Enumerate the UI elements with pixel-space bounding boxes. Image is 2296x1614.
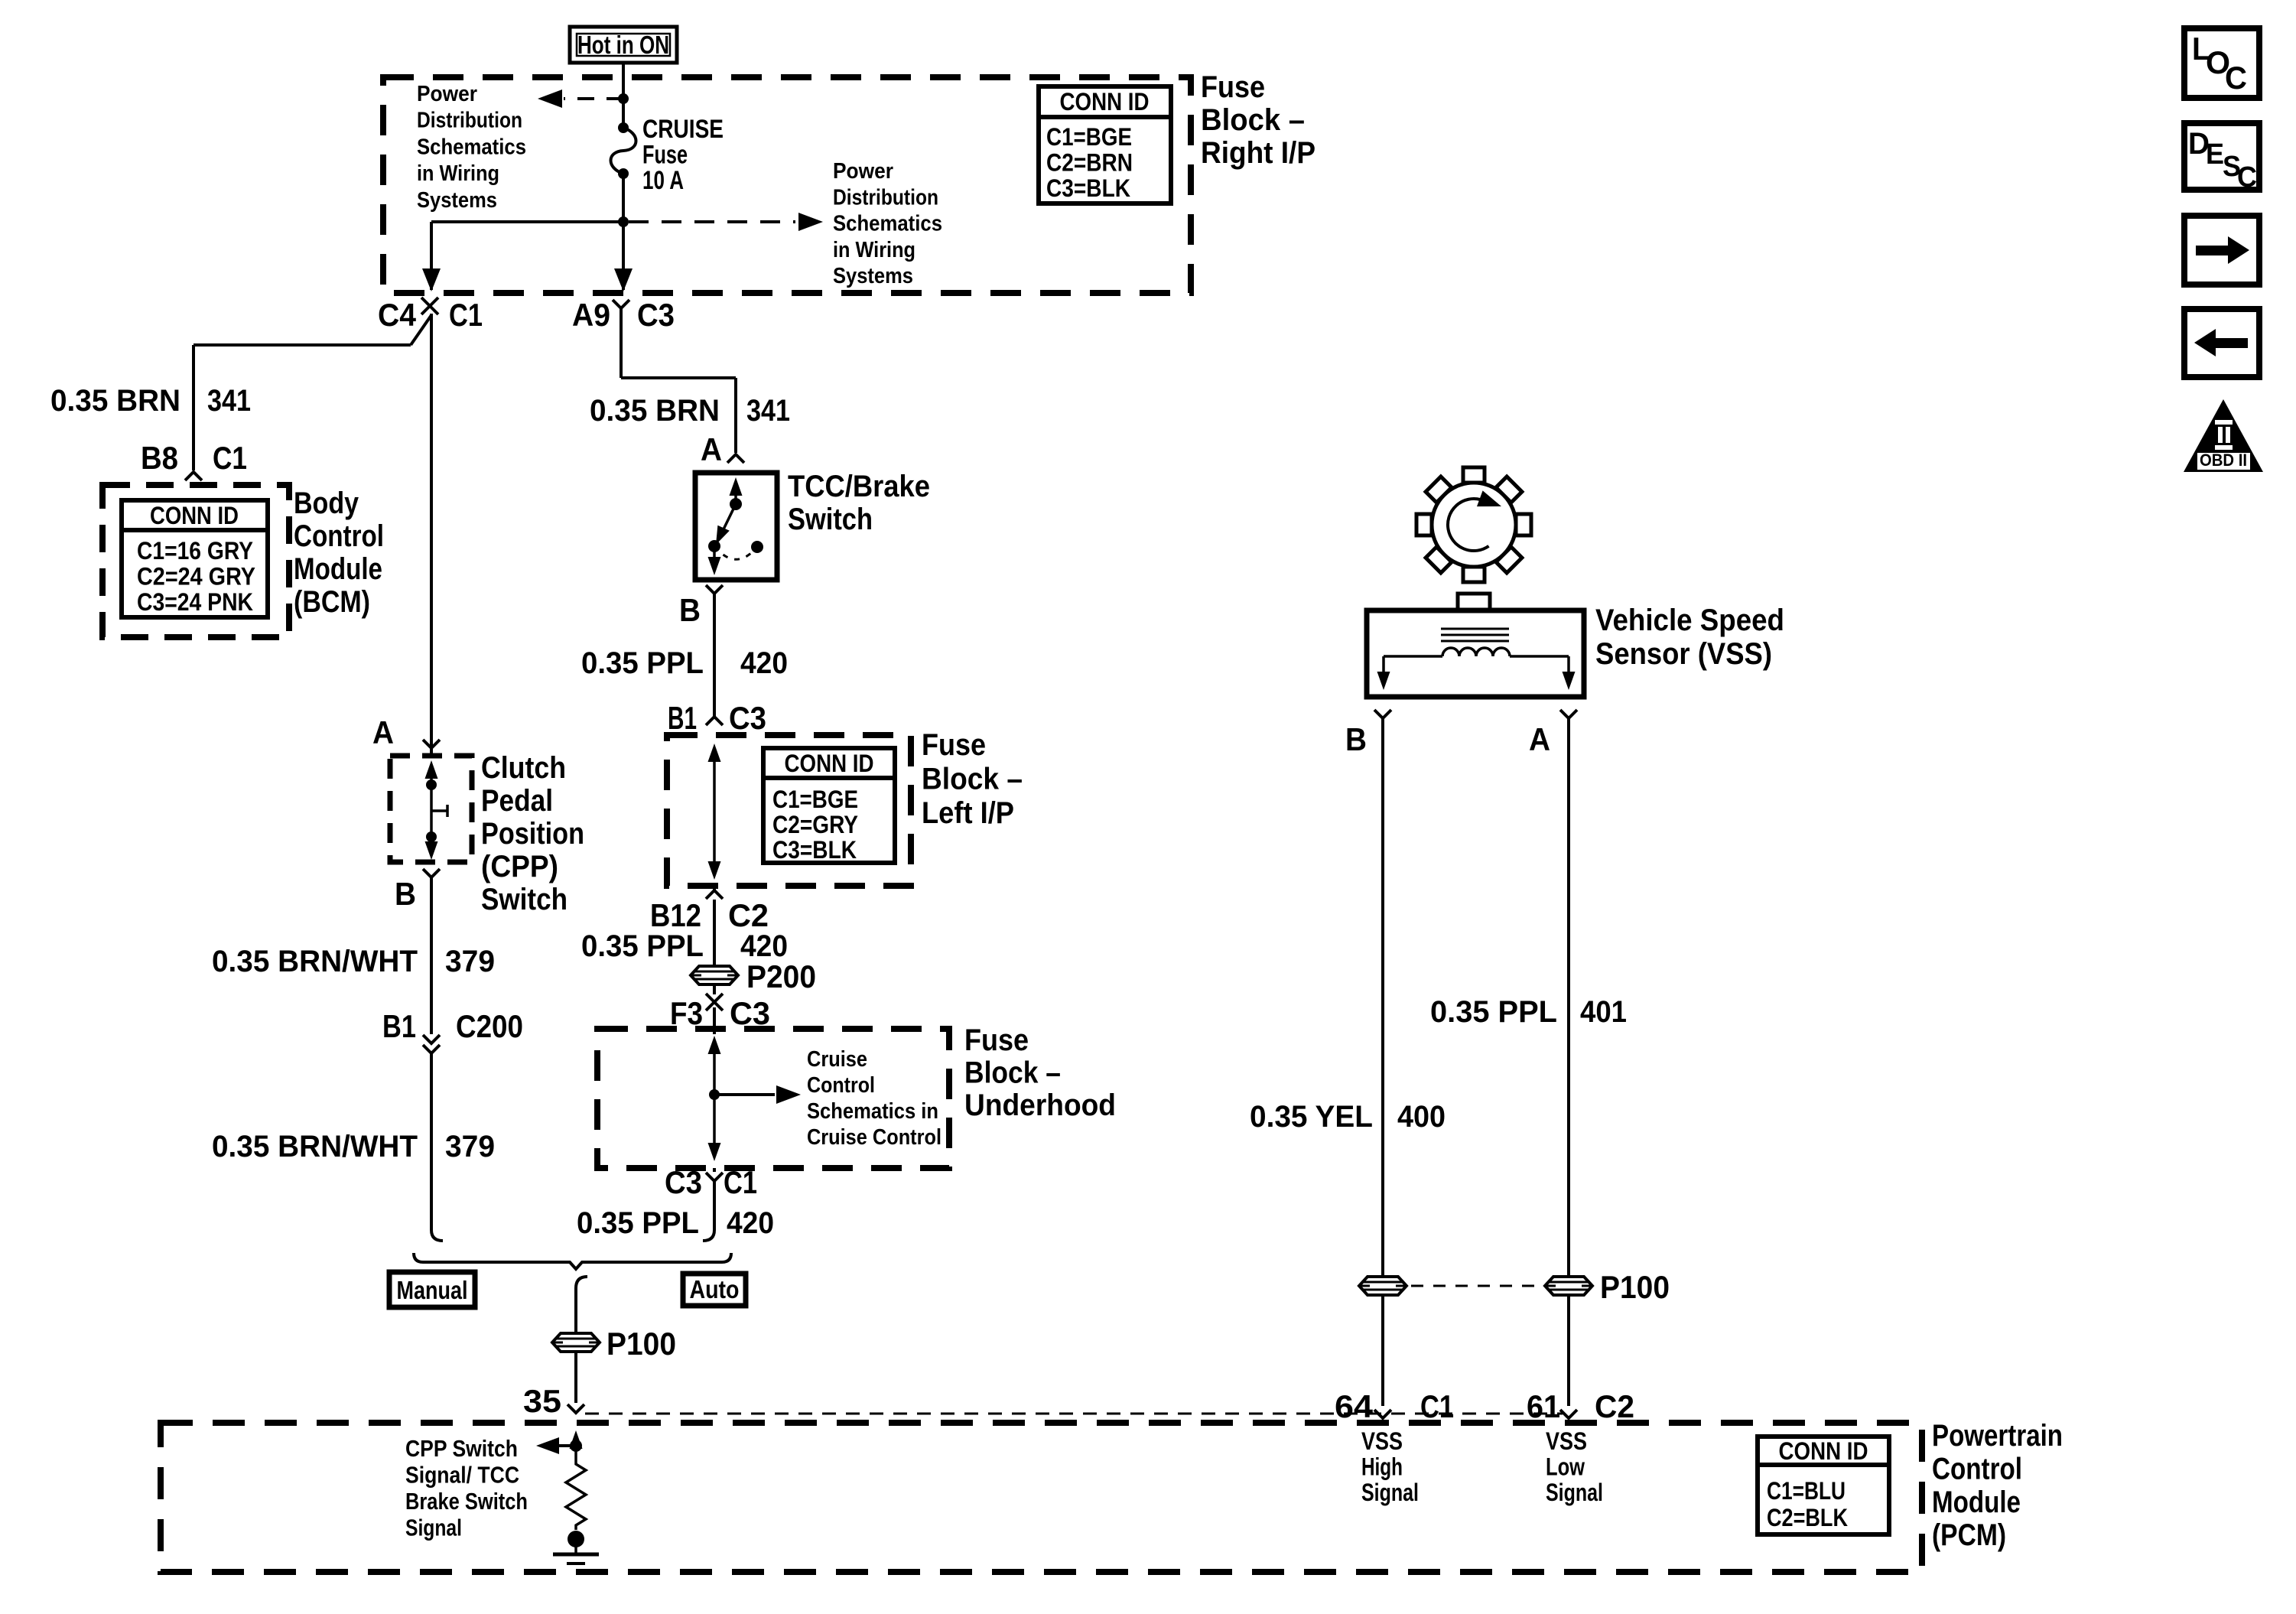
svg-text:Body: Body [294, 486, 359, 520]
svg-text:35: 35 [523, 1383, 561, 1419]
arrow into A9 pin [614, 268, 633, 291]
fuse block underhood dashed box [597, 1029, 949, 1168]
svg-text:A: A [372, 714, 394, 750]
connector symbol 61/C2 [1560, 1410, 1577, 1418]
svg-text:C1=16 GRY: C1=16 GRY [137, 537, 253, 565]
thin dashed boundary line at PCM top [585, 1413, 1563, 1415]
svg-text:C: C [2237, 161, 2257, 194]
svg-text:Fuse: Fuse [922, 728, 986, 762]
wire: Hot in ON down to junction [622, 64, 625, 128]
svg-text:C3: C3 [730, 995, 770, 1031]
svg-text:0.35 PPL: 0.35 PPL [581, 929, 704, 963]
svg-text:C1=BGE: C1=BGE [772, 786, 858, 813]
dashed arrow left to Power Distribution Schematics [564, 97, 623, 100]
svg-text:in Wiring: in Wiring [417, 161, 499, 186]
PCM internal: resistor zigzag [566, 1446, 586, 1530]
svg-text:Control: Control [294, 519, 384, 553]
svg-text:C2=GRY: C2=GRY [772, 811, 858, 838]
right arrow icon box [2184, 216, 2259, 285]
svg-text:High: High [1361, 1453, 1403, 1481]
svg-text:Auto: Auto [690, 1275, 740, 1303]
inline connector P100 (center) [552, 1333, 600, 1352]
svg-text:C3=24 PNK: C3=24 PNK [137, 588, 253, 616]
svg-text:64: 64 [1335, 1388, 1374, 1424]
svg-text:C2=BRN: C2=BRN [1046, 149, 1133, 177]
svg-text:Fuse: Fuse [642, 141, 688, 170]
wire: P100 to PCM 61 [1567, 1296, 1570, 1406]
svg-text:P100: P100 [1600, 1269, 1670, 1305]
svg-text:C4: C4 [378, 297, 417, 333]
junction dot under Hot in ON [618, 93, 629, 104]
PCM internal: ground dot and ground symbol [567, 1531, 584, 1547]
svg-text:C200: C200 [456, 1008, 523, 1044]
svg-text:E: E [2206, 138, 2224, 171]
underhood: internal wire with arrows and branch [713, 1042, 716, 1154]
svg-text:VSS: VSS [1546, 1427, 1587, 1455]
CPP switch dashed box [390, 756, 472, 862]
PCM dashed box [161, 1423, 1922, 1572]
wire: A9 down and right to TCC switch [620, 314, 623, 378]
CONN ID table: PCM [1758, 1437, 1889, 1534]
connector symbol C200 double chevron [423, 1035, 440, 1043]
power label box: Hot in ON [570, 27, 677, 63]
fuse CRUISE 10A: S-curve element [618, 122, 629, 133]
PCM internal: junction dot [570, 1440, 582, 1452]
DESC icon box [2184, 123, 2259, 190]
svg-text:Schematics: Schematics [833, 212, 942, 236]
wire: VSS B down to P100 [1381, 718, 1384, 1276]
connector symbol B1/C3 [706, 717, 723, 725]
TCC/Brake Switch box [695, 473, 777, 580]
connector symbol C4/C1 [421, 298, 438, 314]
svg-text:401: 401 [1580, 995, 1627, 1029]
svg-text:CONN ID: CONN ID [150, 502, 239, 529]
CONN ID table: fuse block left I/P [763, 748, 895, 863]
svg-text:C3=BLK: C3=BLK [1046, 174, 1130, 202]
svg-text:Pedal: Pedal [481, 784, 553, 818]
brace merging manual and auto wires [414, 1253, 731, 1269]
connector symbol 64/C1 [1374, 1410, 1391, 1418]
svg-text:0.35 YEL: 0.35 YEL [1250, 1100, 1373, 1134]
CPP switch: contact bar [430, 785, 433, 837]
VSS gear icon [1416, 467, 1531, 582]
connector symbol B below CPP [423, 869, 440, 877]
svg-text:C1: C1 [724, 1164, 757, 1200]
svg-text:Systems: Systems [833, 264, 913, 288]
LOC icon box [2184, 28, 2259, 98]
wire: C1 down to auto hook [713, 1181, 716, 1224]
fuse block right I/P dashed box [383, 77, 1191, 293]
svg-text:Signal: Signal [1361, 1479, 1419, 1506]
svg-text:Power: Power [417, 82, 477, 106]
connector symbol B8 [185, 472, 202, 480]
wire: P100 to PCM pin 35 [574, 1352, 577, 1403]
svg-text:OBD II: OBD II [2200, 451, 2247, 470]
BCM dashed box [102, 485, 289, 637]
TCC switch: second contact dot [751, 541, 763, 553]
svg-text:C2: C2 [728, 897, 769, 933]
connector symbol A at TCC [727, 454, 744, 463]
svg-text:B1: B1 [668, 700, 697, 736]
svg-text:Systems: Systems [417, 188, 497, 213]
svg-text:P200: P200 [746, 958, 816, 994]
svg-text:341: 341 [746, 394, 790, 428]
svg-text:379: 379 [445, 1130, 495, 1163]
connector symbol B below TCC [706, 585, 723, 594]
svg-text:CPP Switch: CPP Switch [405, 1435, 518, 1462]
svg-text:Block –: Block – [922, 763, 1023, 796]
svg-text:C1: C1 [1420, 1388, 1454, 1424]
svg-text:C3: C3 [665, 1164, 702, 1200]
svg-text:400: 400 [1397, 1100, 1446, 1134]
hook at bottom of manual wire [431, 1224, 443, 1241]
svg-text:0.35 PPL: 0.35 PPL [577, 1206, 699, 1240]
junction dot at power branch [618, 216, 629, 227]
svg-text:0.35 PPL: 0.35 PPL [1430, 995, 1557, 1029]
TCC switch: arm with arrow [721, 504, 736, 534]
svg-text:Schematics in: Schematics in [807, 1099, 938, 1124]
VSS gear rotation arrow [1448, 499, 1488, 551]
PCM internal: left arrow [558, 1444, 576, 1447]
svg-text:0.35 BRN: 0.35 BRN [590, 394, 720, 428]
svg-text:Control: Control [807, 1073, 875, 1098]
svg-text:(CPP): (CPP) [481, 850, 558, 883]
svg-text:C3: C3 [729, 700, 766, 736]
svg-text:0.35 BRN/WHT: 0.35 BRN/WHT [212, 1130, 418, 1163]
svg-text:Control: Control [1932, 1452, 2022, 1485]
svg-text:0.35 BRN: 0.35 BRN [50, 384, 180, 418]
connector symbol A below VSS [1560, 710, 1577, 718]
wire: CPP B down to C200 [430, 877, 433, 1034]
svg-text:Distribution: Distribution [833, 185, 938, 210]
connector symbol C3/C1 [706, 1173, 723, 1181]
svg-text:61: 61 [1527, 1388, 1560, 1424]
TCC switch: down arrow to B [713, 546, 716, 566]
connector symbol A9/C3 [613, 300, 629, 308]
PCM internal: up arrow to pin 35 [574, 1438, 577, 1446]
svg-text:CONN ID: CONN ID [1060, 88, 1150, 116]
wire: P100 to PCM 64 [1381, 1296, 1384, 1406]
svg-text:Sensor (VSS): Sensor (VSS) [1595, 637, 1772, 671]
dashed arrow right to Power Distribution Schematics [629, 220, 795, 223]
fuse block left: internal wire with arrows [713, 751, 716, 872]
svg-text:420: 420 [740, 646, 788, 680]
svg-text:CONN ID: CONN ID [785, 750, 874, 777]
inline connector P100 (VSS low) [1545, 1277, 1592, 1295]
fuse block left I/P dashed box [667, 735, 911, 886]
svg-text:341: 341 [207, 384, 251, 418]
svg-text:Signal: Signal [1546, 1479, 1603, 1506]
svg-text:(BCM): (BCM) [294, 585, 370, 619]
VSS coil [1442, 648, 1510, 656]
svg-text:C2=BLK: C2=BLK [1767, 1504, 1848, 1531]
svg-text:Power: Power [833, 159, 893, 184]
VSS internal wires with arrows [1384, 655, 1442, 658]
CPP switch: up arrow [430, 766, 433, 785]
svg-text:Switch: Switch [481, 883, 567, 916]
svg-text:Distribution: Distribution [417, 109, 522, 133]
wire: P200 to F3 [713, 985, 716, 994]
wire: C200 down to manual hook [430, 1053, 433, 1224]
inline connector P100 (VSS high) [1359, 1277, 1407, 1295]
svg-text:C1=BLU: C1=BLU [1767, 1477, 1846, 1505]
svg-text:Cruise: Cruise [807, 1047, 867, 1072]
svg-text:Right I/P: Right I/P [1201, 136, 1315, 170]
svg-text:379: 379 [445, 945, 495, 978]
Manual tag box [389, 1272, 475, 1307]
svg-text:Fuse: Fuse [1201, 70, 1265, 104]
svg-text:Fuse: Fuse [964, 1023, 1029, 1057]
svg-text:0.35 BRN/WHT: 0.35 BRN/WHT [212, 945, 418, 978]
svg-text:CONN ID: CONN ID [1779, 1437, 1868, 1465]
svg-text:Signal: Signal [405, 1515, 462, 1541]
inline connector P200 [691, 966, 738, 984]
TCC switch: up arrow contact [734, 483, 737, 504]
connector symbol B below VSS [1374, 710, 1391, 718]
svg-text:Schematics: Schematics [417, 135, 526, 159]
wire: TCC B down to B1/C3 [713, 594, 716, 717]
CPP switch: down arrow [430, 837, 433, 851]
svg-text:C1: C1 [449, 297, 483, 333]
svg-text:B: B [679, 592, 701, 628]
svg-text:Block –: Block – [1201, 103, 1305, 137]
svg-text:Position: Position [481, 817, 584, 851]
svg-text:A9: A9 [572, 297, 610, 333]
svg-text:Clutch: Clutch [481, 751, 566, 785]
svg-text:Hot in ON: Hot in ON [577, 31, 669, 59]
svg-text:F3: F3 [670, 995, 703, 1031]
svg-text:Module: Module [294, 552, 382, 586]
svg-text:Cruise Control: Cruise Control [807, 1125, 941, 1150]
left arrow icon box [2184, 309, 2259, 377]
connector symbol pin 35 [567, 1404, 584, 1413]
svg-text:(PCM): (PCM) [1932, 1518, 2006, 1552]
svg-text:Block –: Block – [964, 1056, 1061, 1090]
svg-text:Switch: Switch [788, 503, 873, 536]
svg-text:B1: B1 [382, 1008, 416, 1044]
connector symbol A at CPP [423, 740, 440, 748]
svg-text:Vehicle Speed: Vehicle Speed [1595, 604, 1784, 637]
TCC switch: dashed arc [714, 546, 757, 559]
svg-text:in Wiring: in Wiring [833, 238, 915, 262]
svg-text:B12: B12 [650, 897, 701, 933]
connector symbol F3/C3 [706, 994, 723, 1010]
wire: C1 pin down, branch to BCM [430, 314, 433, 747]
svg-text:C2=24 GRY: C2=24 GRY [137, 563, 255, 591]
svg-text:CRUISE: CRUISE [642, 115, 724, 144]
svg-text:C: C [2225, 60, 2247, 96]
svg-text:Signal/ TCC: Signal/ TCC [405, 1462, 519, 1489]
svg-text:C1: C1 [213, 440, 247, 476]
VSS box [1367, 610, 1584, 697]
svg-text:Brake Switch: Brake Switch [405, 1488, 528, 1515]
svg-text:C1=BGE: C1=BGE [1046, 123, 1132, 151]
svg-text:A: A [701, 431, 722, 467]
CONN ID table: BCM [122, 500, 268, 617]
Auto tag box [683, 1274, 746, 1306]
svg-text:C2: C2 [1595, 1388, 1634, 1424]
CONN ID table: fuse block right I/P [1039, 86, 1171, 203]
svg-text:Manual: Manual [397, 1276, 468, 1304]
svg-text:Left I/P: Left I/P [922, 796, 1014, 830]
wire: branch left to C1 pin [431, 220, 623, 223]
svg-text:VSS: VSS [1361, 1427, 1403, 1455]
svg-text:0.35 PPL: 0.35 PPL [581, 646, 704, 680]
hook below brace and wire to P100 [576, 1277, 587, 1288]
wire: fuse to A9 with junction [622, 174, 625, 290]
svg-text:TCC/Brake: TCC/Brake [788, 470, 930, 503]
connector symbol B12/C2 [706, 890, 723, 899]
wire: VSS A down to P100 [1567, 718, 1570, 1276]
svg-text:Powertrain: Powertrain [1932, 1419, 2063, 1453]
hook at bottom of auto wire [703, 1224, 714, 1241]
svg-text:10 A: 10 A [642, 166, 684, 195]
svg-text:Underhood: Underhood [964, 1088, 1116, 1122]
dashed link between P100 halves [1411, 1285, 1540, 1287]
VSS core lines [1441, 628, 1509, 630]
OBD II triangle icon [2184, 399, 2263, 472]
svg-text:Low: Low [1546, 1453, 1585, 1481]
VSS sensor nub [1458, 594, 1490, 610]
svg-text:420: 420 [727, 1206, 774, 1240]
svg-text:A: A [1529, 721, 1550, 757]
svg-text:B8: B8 [141, 440, 178, 476]
svg-text:Module: Module [1932, 1485, 2021, 1519]
svg-text:B: B [395, 876, 416, 912]
svg-text:B: B [1345, 721, 1367, 757]
svg-text:P100: P100 [607, 1326, 676, 1362]
svg-text:C3=BLK: C3=BLK [772, 836, 857, 864]
svg-text:C3: C3 [637, 297, 675, 333]
